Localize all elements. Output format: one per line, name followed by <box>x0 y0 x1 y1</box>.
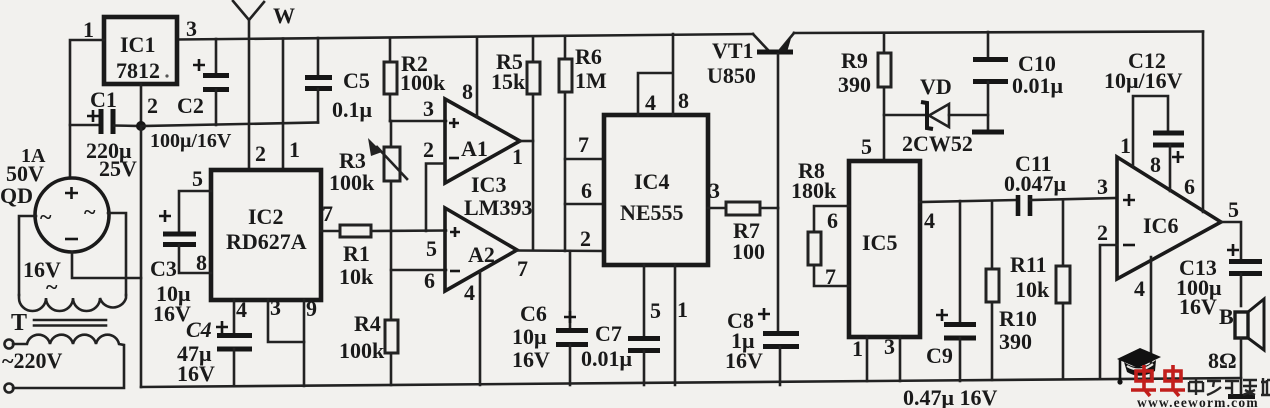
svg-text:4: 4 <box>1134 276 1145 301</box>
watermark site name characters <box>1189 378 1270 395</box>
svg-text:IC3: IC3 <box>471 172 506 197</box>
svg-text:1: 1 <box>289 137 300 162</box>
svg-text:C6: C6 <box>520 301 547 326</box>
wire A1 pin2 <box>426 164 445 232</box>
IC5 <box>849 161 920 337</box>
wire IC6 output to C13 <box>1221 222 1241 261</box>
svg-text:2CW52: 2CW52 <box>902 131 973 156</box>
svg-text:4: 4 <box>645 90 656 115</box>
svg-text:NE555: NE555 <box>620 200 684 225</box>
svg-text:25V: 25V <box>99 156 137 181</box>
svg-text:R11: R11 <box>1010 252 1047 277</box>
svg-text:7: 7 <box>322 201 333 226</box>
svg-text:390: 390 <box>838 72 871 97</box>
wire C3 to IC2 pin8 <box>179 245 211 273</box>
watermark logo cap <box>1117 348 1161 385</box>
svg-text:LM393: LM393 <box>464 195 532 220</box>
wire R2 node to A1 pin3 <box>390 120 446 123</box>
svg-text:0.01μ: 0.01μ <box>1012 73 1064 98</box>
wire IC6 pin2 to ground <box>1100 245 1117 378</box>
svg-text:C3: C3 <box>150 256 177 281</box>
wire IC2 pin1 to bus <box>282 39 285 171</box>
svg-text:0.047μ: 0.047μ <box>1004 171 1067 196</box>
op-amp IC6 <box>1117 157 1221 279</box>
svg-text:C7: C7 <box>595 321 622 346</box>
capacitor C2 <box>177 39 229 125</box>
wire VT1 down to R7 node <box>777 54 780 208</box>
svg-text:0.01μ: 0.01μ <box>581 346 633 371</box>
svg-text:8: 8 <box>462 79 473 104</box>
wire QD minus to ground rail <box>72 252 141 278</box>
wire C4 to ground bus <box>233 349 236 386</box>
wire QD left to transformer <box>19 216 36 295</box>
wire IC5 pin1 to ground <box>866 337 869 381</box>
svg-text:RD627A: RD627A <box>226 229 307 254</box>
resistor R6 <box>559 36 607 93</box>
capacitor C7 <box>581 321 660 385</box>
capacitor C3 <box>150 210 196 326</box>
svg-text:U850: U850 <box>707 63 756 88</box>
svg-text:390: 390 <box>999 329 1032 354</box>
wire R9 to VD node to IC5 pin5 <box>883 87 886 161</box>
capacitor C9 <box>903 201 997 408</box>
svg-text:3: 3 <box>423 96 434 121</box>
svg-text:7: 7 <box>578 132 589 157</box>
svg-text:C4: C4 <box>186 317 212 342</box>
svg-text:16V: 16V <box>1179 294 1217 319</box>
svg-text:5: 5 <box>1228 197 1239 222</box>
wire R6 down through pin7/pin6 to out node <box>564 92 567 251</box>
svg-text:R4: R4 <box>354 311 381 336</box>
resistor R1 <box>339 225 374 289</box>
svg-text:4: 4 <box>236 297 247 322</box>
capacitor C10 <box>972 32 1064 132</box>
svg-text:7812: 7812 <box>116 58 160 83</box>
zener diode VD 2CW52 <box>884 74 988 156</box>
wire A2 output to IC4 pin2 <box>517 249 604 252</box>
svg-text:IC1: IC1 <box>120 32 155 57</box>
capacitor C4 <box>177 317 252 386</box>
svg-text:9: 9 <box>306 296 317 321</box>
op-amp A1 <box>445 99 520 183</box>
svg-text:10k: 10k <box>339 264 374 289</box>
svg-text:2: 2 <box>147 93 158 118</box>
svg-text:2: 2 <box>255 141 266 166</box>
svg-text:180k: 180k <box>791 178 837 203</box>
wire IC1 pin1 to left rail <box>70 40 104 177</box>
svg-text:15k: 15k <box>491 69 526 94</box>
svg-text:16V: 16V <box>177 361 215 386</box>
svg-text:10k: 10k <box>1015 277 1050 302</box>
svg-text:C1: C1 <box>90 87 117 112</box>
resistor R7 <box>726 202 765 264</box>
svg-text:IC5: IC5 <box>862 230 897 255</box>
svg-text:0.1μ: 0.1μ <box>332 97 373 122</box>
svg-text:8: 8 <box>1150 152 1161 177</box>
svg-text:3: 3 <box>270 295 281 320</box>
wire IC4 pin1 to ground <box>674 265 677 385</box>
svg-text:R6: R6 <box>575 44 602 69</box>
IC2 RD627A <box>211 170 321 300</box>
resistor R2 <box>384 38 446 121</box>
svg-text:A2: A2 <box>468 242 495 267</box>
svg-text:IC4: IC4 <box>634 169 669 194</box>
svg-text:C9: C9 <box>926 343 953 368</box>
svg-text:6: 6 <box>827 208 838 233</box>
wire IC2 pin9 to ground bus <box>303 300 306 386</box>
top supply bus wire right of VT1 <box>794 32 1203 34</box>
wire IC4 pin7 <box>565 158 604 161</box>
svg-text:QD: QD <box>0 183 33 208</box>
wire R5/A1out down to A2 output node <box>532 94 535 250</box>
wire node to A2 pin6 <box>391 231 446 270</box>
svg-text:~: ~ <box>40 204 52 229</box>
capacitor C6 <box>512 251 588 385</box>
svg-text:16V: 16V <box>512 347 550 372</box>
wire R7 to VT1 base node <box>760 207 778 210</box>
IC4 NE555 <box>604 115 708 265</box>
capacitor C12 <box>1104 48 1184 163</box>
svg-text:T: T <box>11 310 27 336</box>
wire IC2 pin3 to pin9 <box>268 300 304 342</box>
resistor R5 <box>491 37 540 94</box>
svg-text:5: 5 <box>650 298 661 323</box>
svg-text:100k: 100k <box>400 70 446 95</box>
svg-text:4: 4 <box>464 280 475 305</box>
wire bus to IC6 pin6 <box>1202 32 1205 213</box>
wire IC2 pin4 to C4 <box>233 300 236 335</box>
svg-text:3: 3 <box>884 334 895 359</box>
svg-text:2: 2 <box>423 137 434 162</box>
svg-text:8: 8 <box>196 250 207 275</box>
wire IC4 pin3 to R7 <box>708 207 726 210</box>
svg-text:5: 5 <box>426 236 437 261</box>
wire IC6 pin4 to ground <box>1150 257 1153 378</box>
svg-text:5: 5 <box>192 166 203 191</box>
resistor R10 <box>986 201 1037 380</box>
svg-text:2: 2 <box>1097 220 1108 245</box>
svg-text:8Ω: 8Ω <box>1208 348 1237 373</box>
svg-text:VT1: VT1 <box>712 38 754 63</box>
ground rail vertical <box>140 126 143 387</box>
svg-text:VD: VD <box>920 74 952 99</box>
svg-text:IC6: IC6 <box>1143 213 1178 238</box>
svg-text:1: 1 <box>1120 133 1131 158</box>
resistor R3 variable <box>329 121 407 231</box>
wire IC6 pin1 to C12 top <box>1133 96 1168 166</box>
svg-text:B: B <box>1219 304 1234 329</box>
svg-text:~: ~ <box>84 199 96 224</box>
svg-text:100k: 100k <box>329 170 375 195</box>
wire A2 pin4 to ground <box>479 272 482 385</box>
wire C11 to IC6 pin3 <box>1030 198 1117 200</box>
svg-text:1M: 1M <box>575 68 607 93</box>
speaker B <box>1208 299 1264 397</box>
svg-text:0.47μ 16V: 0.47μ 16V <box>903 385 997 408</box>
capacitor C8 <box>725 308 799 385</box>
wire R1 to A2 pin5 node <box>371 229 446 232</box>
capacitor C11 <box>1004 151 1067 216</box>
svg-text:5: 5 <box>861 134 872 159</box>
transformer T <box>2 295 126 393</box>
svg-text:1: 1 <box>677 297 688 322</box>
wire IC5 pin4 row <box>920 200 1017 202</box>
capacitor C5 <box>305 38 373 123</box>
wire IC2 pin7 to R1 <box>321 230 340 233</box>
capacitor C13 <box>1176 244 1262 319</box>
svg-text:3: 3 <box>709 178 720 203</box>
wire C12 bottom to IC6 pin8 <box>1169 145 1172 191</box>
op-amp A2 <box>445 208 517 291</box>
wire A1 pin8 to bus <box>476 37 479 117</box>
svg-text:100: 100 <box>732 239 765 264</box>
IC1 7812 regulator <box>104 17 177 84</box>
svg-text:~: ~ <box>46 274 58 299</box>
svg-text:10μ: 10μ <box>512 324 547 349</box>
wire IC5 pin3 to ground <box>899 337 902 381</box>
svg-text:W: W <box>273 3 295 28</box>
bottom ground bus wire <box>141 378 1241 387</box>
wire junction row to C5 <box>141 123 318 127</box>
bridge rectifier QD <box>0 145 109 252</box>
wire IC2 pin5 to C3 <box>179 191 211 233</box>
resistor R8 <box>791 158 849 286</box>
watermark chongchong red characters <box>1131 365 1185 396</box>
svg-text:6: 6 <box>1184 174 1195 199</box>
svg-text:C5: C5 <box>343 68 370 93</box>
svg-text:100μ/16V: 100μ/16V <box>150 130 232 152</box>
wire A1 output <box>520 140 533 143</box>
svg-text:IC2: IC2 <box>248 204 283 229</box>
svg-text:6: 6 <box>424 268 435 293</box>
svg-text:2: 2 <box>580 226 591 251</box>
svg-text:10μ/16V: 10μ/16V <box>1104 68 1183 93</box>
svg-text:R10: R10 <box>999 306 1037 331</box>
top supply bus wire <box>177 34 753 40</box>
wire node down to C8 <box>777 208 780 333</box>
svg-text:www.eeworm.com: www.eeworm.com <box>1137 395 1259 408</box>
svg-text:100k: 100k <box>339 338 385 363</box>
svg-text:1: 1 <box>512 144 523 169</box>
node junction C1/C2 <box>136 121 146 131</box>
svg-text:8: 8 <box>678 88 689 113</box>
svg-text:7: 7 <box>517 256 528 281</box>
svg-text:C2: C2 <box>177 93 204 118</box>
svg-text:A1: A1 <box>461 136 488 161</box>
svg-text:6: 6 <box>581 178 592 203</box>
transistor VT1 <box>707 33 794 88</box>
capacitor C1 <box>70 87 141 181</box>
svg-text:3: 3 <box>186 16 197 41</box>
resistor R9 <box>838 33 891 97</box>
svg-text:4: 4 <box>924 208 935 233</box>
svg-text:1: 1 <box>852 336 863 361</box>
svg-text:3: 3 <box>1097 174 1108 199</box>
wire IC4 pin5 to C7 <box>643 265 646 338</box>
svg-text:16V: 16V <box>725 348 763 373</box>
resistor R4 <box>339 270 398 385</box>
wire QD right to transformer <box>108 213 126 295</box>
svg-text:7: 7 <box>825 264 836 289</box>
wire IC4 pin6 <box>565 203 604 206</box>
antenna W <box>233 1 295 170</box>
svg-text:R1: R1 <box>343 241 370 266</box>
svg-text:~220V: ~220V <box>2 348 62 373</box>
svg-text:1: 1 <box>83 17 94 42</box>
wire IC4 pin4 pin8 to bus <box>638 34 673 115</box>
wire IC1 pin2 down <box>140 84 143 126</box>
resistor R11 <box>1010 200 1070 379</box>
svg-text:R9: R9 <box>841 48 868 73</box>
